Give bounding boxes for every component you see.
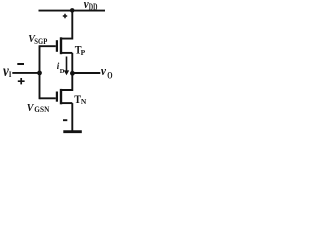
wire T_N source to ground: [71, 103, 73, 131]
label V_GSN: [27, 103, 50, 114]
svg-text:I: I: [9, 70, 12, 80]
node output dot: [70, 71, 75, 76]
wire VDD rail: [39, 10, 106, 12]
label v_DD: [84, 0, 98, 12]
wire drain bus upper (rail to T_P source): [61, 10, 72, 38]
wire T_N gate: [40, 97, 56, 99]
transistor T_N source lead: [61, 102, 72, 104]
transistor T_P channel bar: [60, 37, 62, 54]
svg-text:O: O: [107, 70, 112, 80]
transistor T_N gate bar: [56, 92, 58, 102]
wire gate bus vertical: [39, 45, 41, 99]
transistor T_P gate bar: [56, 40, 58, 52]
wire drain bus lower (node to T_N drain): [61, 73, 72, 90]
wire drain bus middle (T_P drain to node): [71, 53, 73, 73]
node dot on VDD rail: [70, 8, 75, 13]
label T_P: [75, 44, 86, 58]
label v_I: [3, 63, 11, 81]
label V_SGP: [28, 34, 47, 46]
svg-text:DD: DD: [89, 2, 98, 13]
label v_O: [101, 63, 113, 80]
minus sign (input -): [17, 63, 24, 65]
svg-text:P: P: [81, 48, 86, 57]
label T_N: [74, 93, 87, 106]
current arrow i_D: [64, 57, 69, 76]
plus sign (supply +): [63, 14, 67, 18]
plus sign (input +): [18, 78, 25, 84]
wire input lead: [12, 72, 39, 74]
wire output lead: [72, 72, 100, 74]
minus sign (ground -): [63, 119, 67, 121]
ground bar: [63, 130, 82, 133]
svg-text:v: v: [101, 63, 107, 78]
svg-text:SGP: SGP: [34, 36, 47, 46]
svg-text:GSN: GSN: [34, 104, 49, 114]
node input junction dot: [37, 71, 42, 76]
transistor T_P drain lead: [61, 52, 72, 54]
transistor T_N channel bar: [60, 89, 62, 104]
svg-text:D: D: [60, 68, 65, 75]
wire T_P gate: [40, 45, 56, 47]
label i_D: [57, 61, 65, 75]
svg-text:N: N: [81, 97, 87, 106]
